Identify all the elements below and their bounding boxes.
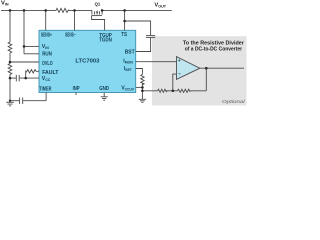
svg-text:−: −	[178, 72, 181, 77]
wire SENS+ riser	[45, 10, 47, 30]
svg-text:VIN: VIN	[1, 1, 9, 7]
svg-text:OVLO: OVLO	[42, 61, 53, 67]
wire VIN/RUN branch	[24, 10, 39, 53]
resistor R FAULT pullup	[26, 70, 39, 78]
wire VCCUV	[136, 86, 143, 88]
resistor R1 OVLO divider top	[8, 10, 12, 53]
wire VIN rail left	[1, 9, 56, 11]
node rail TS	[123, 9, 126, 12]
resistor R ISET	[136, 69, 144, 91]
resistor R2 OVLO divider bottom	[8, 64, 12, 79]
wire rail to Q1	[69, 9, 92, 11]
svg-text:Optional: Optional	[222, 99, 246, 104]
transistor Q1 arrow	[96, 10, 99, 12]
capacitor C BST	[125, 21, 156, 52]
node rail x10	[9, 9, 12, 12]
node divider gnd	[141, 90, 144, 93]
node VCC cap left	[9, 77, 12, 80]
node divider tap	[172, 90, 175, 93]
capacitor C VCC	[10, 75, 39, 82]
svg-text:Q1: Q1	[95, 2, 101, 7]
svg-text:SENS+: SENS+	[41, 32, 52, 38]
node rail x24	[23, 9, 26, 12]
optional gray region	[152, 36, 247, 105]
node Q1 drain	[101, 9, 104, 12]
transistor Q1	[92, 10, 105, 30]
svg-text:of a DC-to-DC Converter: of a DC-to-DC Converter	[185, 47, 243, 53]
svg-text:BST: BST	[125, 50, 136, 56]
wire ground chain left	[9, 78, 11, 101]
note to resistive divider	[183, 41, 245, 53]
wire SENS- riser	[74, 10, 76, 30]
wire op-amp output	[200, 67, 244, 69]
wire rail Q1 to VOUT	[102, 9, 172, 11]
op-amp U2	[177, 57, 200, 80]
svg-text:LTC7003: LTC7003	[75, 59, 99, 65]
svg-text:RUN: RUN	[42, 51, 52, 57]
capacitor C TIMER	[10, 93, 46, 105]
junction dots	[9, 9, 208, 102]
ground left	[6, 101, 14, 106]
IC U1 LTC7003 body	[39, 30, 136, 92]
node VIN rail	[1, 8, 172, 12]
node TS/BST	[123, 20, 126, 23]
node rail SENS+	[44, 9, 47, 12]
svg-text:TIMER: TIMER	[39, 86, 51, 92]
resistor Ra divider	[142, 89, 177, 92]
resistor Rb divider	[178, 89, 207, 92]
svg-text:+: +	[178, 58, 181, 63]
node ISET/VCCUV	[141, 86, 144, 89]
resistor RSENSE	[56, 8, 70, 12]
pin stub INP	[75, 93, 77, 96]
svg-text:TS: TS	[121, 32, 127, 38]
wire IMON to op-amp	[136, 61, 177, 63]
node rail SENS-	[73, 9, 76, 12]
wire TS riser	[124, 10, 126, 30]
svg-text:GND: GND	[99, 86, 109, 92]
svg-text:TGDN: TGDN	[99, 38, 112, 44]
node VIN pin	[23, 45, 26, 48]
node OVLO tap	[9, 61, 12, 64]
ground GND pin	[101, 93, 108, 101]
wire feedback	[205, 68, 207, 91]
wire OVLO tap	[10, 53, 39, 64]
svg-text:FAULT: FAULT	[42, 70, 59, 76]
IC pin labels	[39, 32, 135, 93]
svg-text:INP: INP	[73, 86, 80, 92]
node op-amp output	[205, 67, 208, 70]
svg-text:VOUT: VOUT	[154, 3, 166, 9]
node TIMER gnd	[9, 100, 11, 102]
svg-text:SENS−: SENS−	[65, 32, 76, 38]
wire inverting input	[173, 74, 177, 91]
ground right	[139, 91, 146, 103]
node FAULT/VCC	[24, 77, 27, 80]
